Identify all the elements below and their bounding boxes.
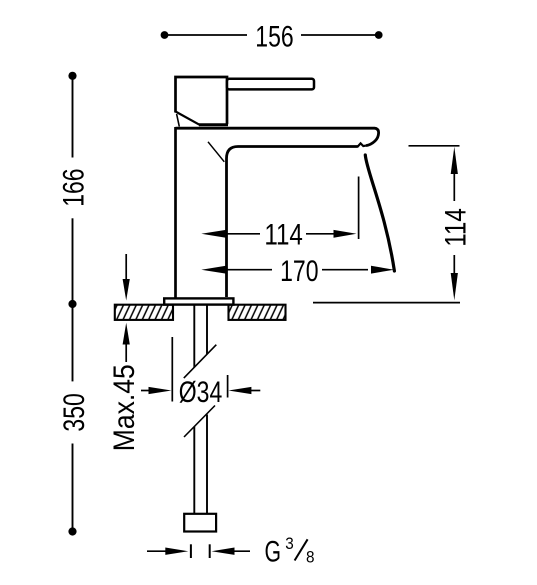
dim 114 horizontal right arrow bbox=[334, 230, 357, 238]
svg-text:3: 3 bbox=[285, 534, 294, 553]
G3/8 right arrow bbox=[212, 548, 235, 555]
left dim dot middle bbox=[68, 300, 76, 308]
right dim 114 top extension line bbox=[409, 145, 460, 147]
supply connector block bbox=[184, 514, 216, 532]
dim 170 line right bbox=[322, 269, 368, 271]
body left edge bbox=[174, 127, 177, 298]
pipe break diagonal lower bbox=[184, 406, 215, 438]
pipe break diagonal upper bbox=[184, 345, 217, 378]
G3/8 dim line right bbox=[232, 550, 250, 552]
dim 114 horizontal left arrow piercing body bbox=[201, 230, 226, 238]
dim 114 extension line vertical bbox=[358, 177, 360, 240]
shank upper left line bbox=[193, 306, 195, 368]
spout underside to inner corner bbox=[227, 147, 358, 298]
dim 170 right arrow bbox=[371, 266, 394, 274]
right dim 114 line upper bbox=[453, 172, 455, 201]
inner corner leader diagonal bbox=[208, 142, 224, 162]
deck right block hatched bbox=[229, 305, 286, 320]
dia34 right arrow bbox=[228, 387, 251, 394]
left dim line 350 segment lower bbox=[72, 444, 74, 532]
left dim dot top bbox=[68, 72, 76, 80]
faucet handle block outline bbox=[176, 77, 228, 124]
dim 114 horizontal line left bbox=[225, 233, 260, 235]
dia34 left extension line bbox=[171, 337, 173, 402]
svg-text:170: 170 bbox=[280, 254, 318, 287]
svg-text:350: 350 bbox=[57, 393, 90, 431]
dim 114 horizontal line right bbox=[306, 233, 336, 235]
right dim 114 bottom extension line (deck level) bbox=[313, 302, 460, 304]
handle front wedge line bbox=[177, 114, 180, 127]
dim 156 line right segment bbox=[301, 34, 379, 36]
left dim line 350 segment upper bbox=[72, 304, 74, 381]
G3/8 dim line left bbox=[147, 550, 168, 552]
right dim 114 down arrow bbox=[451, 273, 458, 300]
shank lower right line bbox=[206, 415, 208, 514]
dim 156 line left segment bbox=[165, 34, 248, 36]
base flange bbox=[164, 298, 233, 304]
handle lever bar bbox=[227, 79, 314, 90]
svg-text:166: 166 bbox=[57, 168, 90, 206]
dim 170 line left bbox=[225, 269, 272, 271]
shank upper right line bbox=[206, 306, 208, 355]
dim 156 top: right dot bbox=[375, 31, 383, 39]
handle block chamfer bbox=[176, 112, 201, 126]
svg-text:Max.45: Max.45 bbox=[108, 364, 141, 451]
G3/8 left arrow bbox=[165, 548, 188, 555]
left dim line 166 segment lower bbox=[72, 218, 74, 304]
svg-text:Ø34: Ø34 bbox=[179, 375, 222, 408]
dim 170 left arrow piercing body bbox=[201, 266, 226, 274]
dia34 left arrow bbox=[149, 387, 172, 394]
dia34 left arrow shaft bbox=[141, 390, 150, 392]
left dim dot bottom bbox=[68, 527, 76, 535]
dia34 right extension line bbox=[227, 375, 229, 398]
spout top edge and tip bbox=[176, 128, 379, 145]
svg-text:8: 8 bbox=[306, 548, 315, 567]
right dim 114 up arrow bbox=[451, 147, 458, 174]
Max.45 up arrow bbox=[123, 323, 130, 345]
Max.45 dim upper line bbox=[125, 254, 127, 281]
svg-text:156: 156 bbox=[255, 20, 293, 53]
shank lower left line bbox=[193, 427, 195, 514]
svg-text:114: 114 bbox=[264, 218, 303, 251]
thread label fraction slash bbox=[295, 539, 308, 560]
dia34 right arrow shaft bbox=[250, 390, 260, 392]
water stream curve bbox=[365, 155, 394, 271]
left dim line 166 segment upper bbox=[72, 76, 74, 158]
dim 156 top: left dot bbox=[161, 31, 169, 39]
svg-text:G: G bbox=[265, 536, 282, 568]
G3/8 left tick bbox=[190, 544, 192, 558]
aerator notch bbox=[357, 143, 366, 147]
svg-text:114: 114 bbox=[439, 208, 472, 247]
handle block bottom thick edge bbox=[199, 123, 228, 126]
Max.45 down arrow bbox=[123, 279, 130, 301]
Max.45 lower line bbox=[125, 343, 127, 362]
deck left block hatched bbox=[115, 305, 173, 320]
right dim 114 line lower bbox=[453, 255, 455, 274]
G3/8 right tick bbox=[209, 544, 211, 558]
